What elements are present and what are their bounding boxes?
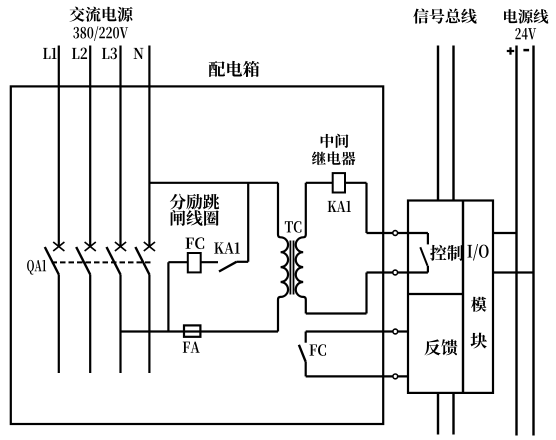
wire: right riser to control terminal 1 (365, 183, 367, 233)
label 反馈 (424, 339, 457, 355)
wire: signal bus line 1 (above module) (437, 46, 439, 201)
wire: feedback row 1 (306, 330, 408, 332)
wire: N below breaker (148, 275, 150, 374)
breaker QA1 pole 4 (N) contact cross (144, 242, 155, 251)
label AC supply 交流电源 (69, 7, 132, 22)
label intermediate relay 中间 (321, 134, 349, 148)
label phase L3 (102, 48, 117, 60)
wire: secondary bottom rail (306, 312, 367, 314)
breaker QA1 pole 3 (L3) contact cross (115, 242, 126, 251)
wire: signal bus line 1 (below module) (437, 393, 439, 435)
label shunt trip coil 分励跳闸线圈 (line 2) (171, 210, 219, 226)
label + polarity (507, 47, 514, 54)
wire: coil FC to contact KA1 (201, 261, 218, 263)
breaker QA1 pole 3 (L3) blade (107, 247, 121, 275)
wire: incoming line L1 (58, 46, 60, 248)
breaker QA1 pole 1 (L1) contact cross (53, 242, 64, 251)
label phase N (134, 48, 144, 59)
node: control terminal 1 (393, 231, 398, 236)
wire: incoming line L2 (89, 46, 91, 248)
wire: FC branch riser (167, 262, 169, 331)
breaker QA1 pole 4 (N) blade (135, 247, 149, 275)
breaker QA1 mechanical linkage (dashed) (52, 261, 154, 263)
I/O module divider (horizontal) (408, 293, 463, 295)
wire: signal bus line 2 (above module) (452, 46, 454, 201)
breaker QA1 pole 1 (L1) blade (45, 247, 59, 275)
label transformer TC (285, 221, 302, 233)
coil FC (shunt trip coil) (188, 253, 201, 272)
node: feedback terminal 2 (393, 374, 398, 379)
switch in control section (420, 233, 428, 273)
node: control terminal 2 (393, 270, 398, 275)
enclosure: distribution box 配电箱 outline (11, 86, 383, 424)
label signal bus 信号总线 (413, 9, 476, 24)
label phase L2 (72, 48, 87, 59)
transformer TC core (290, 241, 293, 295)
wire: lower riser control row 2 (365, 273, 367, 314)
wire: contact KA1 to riser (237, 261, 249, 263)
wire: relay coil to right riser (345, 182, 367, 184)
I/O module divider (vertical) (462, 201, 464, 393)
wire: L1 below breaker (58, 275, 60, 374)
label 模 (471, 297, 487, 312)
label 块 (471, 333, 487, 349)
label breaker QA1 (27, 260, 46, 275)
breaker QA1 pole 2 (L2) contact cross (85, 242, 96, 251)
wire: module to -24V (493, 271, 534, 273)
wire: L2 below breaker (89, 275, 91, 374)
wire: L3 below breaker (119, 275, 121, 374)
label 380/220V (73, 26, 128, 41)
switch FC (feedback auxiliary contact) (299, 332, 306, 377)
wire: into coil FC (168, 261, 187, 263)
I/O module box (408, 201, 493, 393)
label distribution box 配电箱 (209, 61, 260, 77)
wire: module to +24V (493, 232, 517, 234)
wire: secondary top rail to relay coil (306, 182, 333, 184)
label phase L1 (43, 48, 57, 59)
label FC (feedback contact) (309, 344, 326, 356)
label I/O (467, 244, 488, 261)
label intermediate relay 继电器 (312, 151, 356, 165)
label KA1 (contact) (214, 242, 240, 253)
wire: 24V negative line (532, 46, 534, 436)
wire: trip circuit bottom rail (from L3) (121, 330, 279, 332)
wire: feedback row 2 (306, 375, 408, 377)
node: feedback terminal 1 (393, 329, 398, 334)
wire: control row 1 (367, 232, 428, 234)
breaker QA1 pole 2 (L2) blade (76, 247, 90, 275)
fuse FA (184, 325, 200, 336)
contact KA1 (NO) blade (219, 262, 237, 272)
wire: control row 2 (367, 271, 428, 273)
label shunt trip coil 分励跳闸线圈 (line 1) (170, 194, 219, 210)
relay coil KA1 (333, 173, 345, 192)
label power line 电源线 (504, 9, 548, 23)
label FA (fuse) (183, 342, 200, 353)
wire: signal bus line 2 (below module) (452, 393, 454, 435)
label 24V (515, 28, 536, 40)
label FC (trip coil) (185, 237, 204, 249)
transformer TC primary winding (278, 183, 288, 332)
wire: 24V positive line (515, 46, 517, 436)
wire: incoming line N (148, 46, 150, 248)
label 控制 (430, 245, 463, 261)
transformer TC secondary winding (296, 183, 306, 314)
wire: trip circuit top rail (from N) (149, 182, 278, 184)
label - polarity (523, 49, 529, 52)
wire: incoming line L3 (119, 46, 121, 248)
wire: KA1 branch riser to top rail (247, 183, 249, 262)
label KA1 (relay coil) (328, 201, 351, 212)
